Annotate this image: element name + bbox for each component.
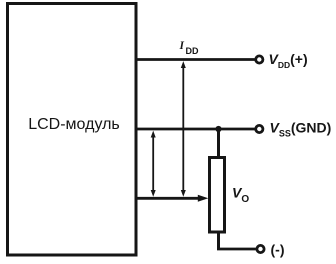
svg-text:(-): (-) — [271, 241, 285, 257]
svg-text:LCD-модуль: LCD-модуль — [28, 116, 120, 133]
svg-text:DD: DD — [186, 46, 199, 56]
svg-text:I: I — [179, 40, 185, 52]
